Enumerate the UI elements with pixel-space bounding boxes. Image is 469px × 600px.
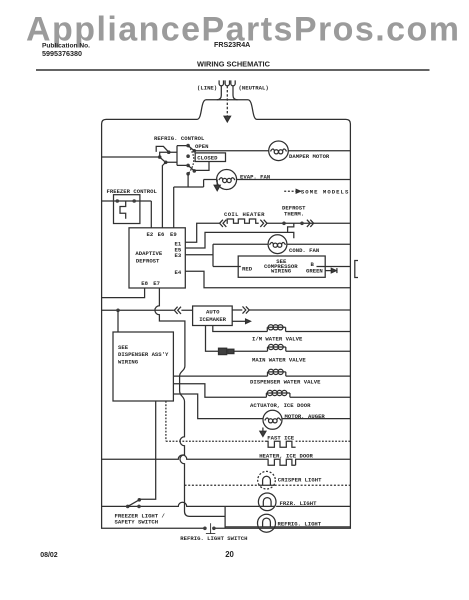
node contact R2 <box>186 154 190 158</box>
wire refrig light riser <box>224 506 226 528</box>
evap fan motor M2 <box>217 170 237 190</box>
svg-text:WIRING SCHEMATIC: WIRING SCHEMATIC <box>197 60 271 69</box>
wire RED lead <box>213 266 241 268</box>
wire icemaker to right border <box>232 309 350 311</box>
wire B lead to right border <box>317 266 351 268</box>
chassis ground evap fan <box>216 180 218 186</box>
splice chevrons right of defrost therm <box>307 220 314 227</box>
svg-text:5995376380: 5995376380 <box>42 49 82 58</box>
node contact R6 <box>193 169 197 173</box>
box freezer control <box>114 195 140 224</box>
some models dashed arrow <box>284 190 296 192</box>
wire I/M valve drop from icemaker <box>213 326 267 332</box>
wire main valve to right border <box>286 350 351 352</box>
crisper lamp <box>258 471 276 489</box>
wire E6 riser <box>162 162 165 228</box>
wire dispenser valve row <box>173 375 267 377</box>
dispenser assembly box <box>113 332 173 401</box>
blade R1-R5 <box>188 146 194 151</box>
svg-text:ACTUATOR, ICE DOOR: ACTUATOR, ICE DOOR <box>250 402 311 409</box>
refrig lamp <box>258 514 276 532</box>
wire dispenser valve to right border <box>286 375 351 377</box>
svg-text:DAMPER MOTOR: DAMPER MOTOR <box>289 153 330 160</box>
inline connector main valve <box>219 348 227 354</box>
motor windings damper <box>274 150 278 154</box>
svg-text:SEE: SEE <box>118 344 129 351</box>
svg-text:CLOSED: CLOSED <box>197 154 218 161</box>
wire auger motor row <box>173 394 263 419</box>
svg-text:OPEN: OPEN <box>195 143 208 150</box>
node contact R5 open <box>193 149 197 153</box>
svg-text:E9: E9 <box>170 231 177 238</box>
solenoid coil I/M water valve <box>267 327 285 331</box>
wire evap fan link <box>174 180 217 188</box>
splice chevrons before icemaker <box>174 307 181 314</box>
node refrig control input <box>158 155 162 159</box>
wire cond fan row left <box>213 243 268 245</box>
svg-text:E2: E2 <box>147 231 154 238</box>
svg-text:DISPENSER WATER VALVE: DISPENSER WATER VALVE <box>250 379 321 386</box>
header rule line <box>36 69 430 71</box>
neutral wire N top entry <box>233 86 238 100</box>
refrig light switch plunger <box>206 523 215 533</box>
splice chevrons left of coil heater <box>220 220 227 227</box>
svg-text:CRISPER LIGHT: CRISPER LIGHT <box>278 477 322 484</box>
sensor step freezer control <box>120 201 126 219</box>
node defrost therm left <box>282 222 286 226</box>
wire crisper to right border <box>275 484 351 486</box>
ground arrowhead down <box>224 116 230 122</box>
svg-text:E6: E6 <box>158 231 165 238</box>
node contact R4 <box>186 172 190 176</box>
splice chevrons after icemaker <box>243 306 250 313</box>
node freezer control left <box>116 199 120 203</box>
svg-text:WIRING: WIRING <box>118 358 139 365</box>
svg-text:SOME MODELS: SOME MODELS <box>301 188 349 195</box>
svg-text:AUTO: AUTO <box>206 309 220 316</box>
wire E7 drop with hop <box>155 288 225 516</box>
svg-text:E3: E3 <box>175 252 182 259</box>
svg-text:E4: E4 <box>175 269 182 276</box>
svg-text:ADAPTIVE: ADAPTIVE <box>135 250 162 257</box>
node refrig control throw upper <box>167 150 171 154</box>
node freezer control right <box>132 199 136 203</box>
wire freezer lamp to right border <box>276 505 350 507</box>
wire E5 to thermostat <box>185 232 287 248</box>
compressor wiring box <box>238 256 325 277</box>
svg-text:MAIN WATER VALVE: MAIN WATER VALVE <box>252 357 306 364</box>
defrost thermostat sensor zigzag <box>288 223 294 238</box>
svg-text:(LINE): (LINE) <box>197 85 217 92</box>
svg-text:THERM.: THERM. <box>284 211 304 218</box>
switch bar refrig control <box>166 146 188 166</box>
ground wire middle entry <box>226 86 228 117</box>
heater element ice door <box>266 459 296 465</box>
node dispenser feed junction <box>116 309 120 313</box>
wire GREEN lead <box>325 270 331 272</box>
wire connector to main valve coil <box>234 350 268 352</box>
svg-text:COND. FAN: COND. FAN <box>289 247 319 254</box>
GREEN lead tick <box>336 268 338 273</box>
wire contact R4 down <box>187 174 189 187</box>
motor windings evap fan <box>223 178 227 182</box>
svg-text:GREEN: GREEN <box>306 267 323 274</box>
adaptive defrost control box <box>129 228 185 288</box>
wire E8 to left border <box>102 288 145 298</box>
wire left border to refrig control <box>102 156 160 158</box>
svg-text:ICEMAKER: ICEMAKER <box>199 316 226 323</box>
svg-text:E7: E7 <box>153 280 160 287</box>
wire dispenser box feed drop <box>117 310 119 332</box>
solenoid coil dispenser water valve <box>268 372 286 376</box>
box CLOSED <box>195 153 225 162</box>
icemaker lead with arrowhead <box>232 320 245 322</box>
auger motor M4 <box>263 410 282 429</box>
ground wire plug hook <box>225 80 229 85</box>
chassis ground auger <box>262 428 264 432</box>
wire left border through freezer control <box>102 200 152 202</box>
wire damper motor to right border <box>288 150 350 152</box>
node refrig control throw lower <box>164 161 168 165</box>
node defrost therm right <box>300 222 304 226</box>
motor windings auger <box>269 419 273 423</box>
wire actuator to right border <box>290 396 351 398</box>
node contact R3 <box>186 164 190 168</box>
auto icemaker box <box>193 306 233 326</box>
svg-text:RED: RED <box>242 266 253 273</box>
line wire L1 top entry <box>217 86 222 100</box>
svg-text:SAFETY SWITCH: SAFETY SWITCH <box>115 519 159 526</box>
sensor step refrig control <box>156 146 168 152</box>
svg-text:DEFROST: DEFROST <box>136 258 160 265</box>
svg-text:FAST ICE: FAST ICE <box>267 435 294 442</box>
wire refrig lamp to right border <box>274 526 351 528</box>
dashed fast ice to right border <box>296 440 351 442</box>
cabinet border outline with top entry bump <box>102 100 351 529</box>
splice chevrons right of coil heater <box>260 220 267 227</box>
svg-text:(NEUTRAL): (NEUTRAL) <box>239 85 269 92</box>
motor windings cond fan <box>273 243 277 247</box>
node contact R1 <box>186 144 190 148</box>
solenoid coil actuator ice door <box>266 393 290 397</box>
node freezer switch C <box>138 498 142 502</box>
wire E3 to junction <box>185 254 213 256</box>
wire actuator row <box>173 384 266 398</box>
wiper arc refrig control <box>189 146 194 173</box>
wire input blade lower <box>160 157 166 162</box>
wire E2 riser <box>150 201 152 228</box>
svg-text:20: 20 <box>225 550 234 559</box>
freezer lamp <box>258 493 276 511</box>
node freezer switch B <box>137 505 141 509</box>
line wire L1 plug hook <box>219 80 223 85</box>
wire freezer light row from border <box>102 502 260 506</box>
wire junction vertical E3 <box>212 244 214 266</box>
solenoid coil main water valve <box>268 347 286 351</box>
wire input step up <box>160 152 169 157</box>
svg-text:COIL HEATER: COIL HEATER <box>224 211 265 218</box>
wire E4 to lower bus <box>185 271 350 288</box>
svg-text:FRS23R4A: FRS23R4A <box>214 41 250 49</box>
blade freezer light switch <box>128 500 140 507</box>
wire heater ice door row <box>102 455 266 459</box>
neutral wire N plug hook <box>231 80 235 85</box>
wire E9 riser <box>173 187 175 228</box>
wire icemaker feed from left border <box>102 309 193 311</box>
node refrig switch right <box>212 527 216 531</box>
wire heater to defrost thermostat <box>267 222 350 224</box>
GREEN lead arrowhead <box>331 268 336 272</box>
damper motor M1 <box>269 141 289 161</box>
heater element coil heater <box>227 219 259 223</box>
connector bracket right of border <box>355 261 358 278</box>
svg-text:I/M WATER VALVE: I/M WATER VALVE <box>252 336 303 343</box>
svg-text:REFRIG. LIGHT: REFRIG. LIGHT <box>278 520 322 527</box>
wire refrig lamp row <box>225 526 260 528</box>
wire main valve drop from icemaker <box>206 326 219 352</box>
cond fan motor M3 <box>268 235 287 254</box>
wire crisper row <box>185 484 259 486</box>
node freezer switch A <box>126 505 130 509</box>
wire safety switch riser <box>139 401 155 499</box>
svg-text:WIRING: WIRING <box>271 267 292 274</box>
svg-text:REFRIG. CONTROL: REFRIG. CONTROL <box>154 135 205 142</box>
wire heater to right border <box>296 459 351 465</box>
wire evap fan to right border <box>237 179 351 181</box>
wire E1 to heater row <box>185 223 219 242</box>
svg-text:E8: E8 <box>141 280 148 287</box>
wire cond fan to right border <box>287 243 351 245</box>
svg-text:DISPENSER ASS'Y: DISPENSER ASS'Y <box>118 351 169 358</box>
heater element fast ice <box>266 441 296 447</box>
blade R3-R6 <box>188 165 194 171</box>
wire I/M valve to right border <box>286 331 351 333</box>
dashed fast ice drop <box>165 401 167 441</box>
node refrig switch left <box>203 527 207 531</box>
svg-text:REFRIG. LIGHT SWITCH: REFRIG. LIGHT SWITCH <box>180 535 247 542</box>
wire open contact to damper motor <box>194 150 268 152</box>
dashed fast ice row <box>166 440 266 442</box>
svg-text:08/02: 08/02 <box>40 552 58 559</box>
wire auger to right border <box>282 418 351 420</box>
wire closed box to lower contact <box>195 162 209 171</box>
